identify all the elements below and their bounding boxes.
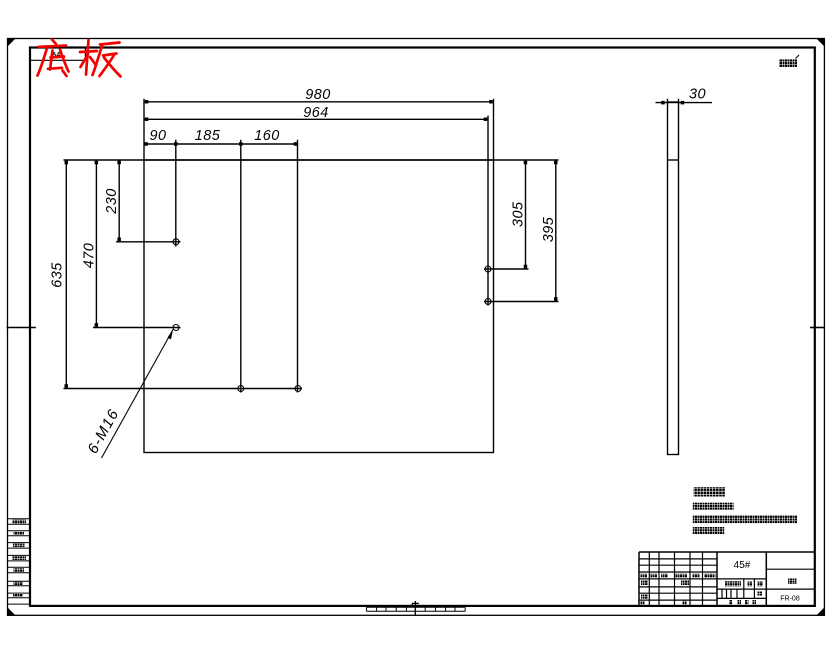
- text title block small blobs: [641, 574, 797, 605]
- wire dimension line 305: [525, 160, 527, 269]
- wire dimension line 90-185-160: [144, 143, 298, 145]
- node holes M16: [173, 239, 491, 392]
- wire dimension line 30: [656, 102, 713, 104]
- wire dimension line 980: [144, 101, 494, 103]
- wire dimension line 635: [65, 160, 67, 389]
- node side view plate: [656, 99, 713, 455]
- node corner mark bottom-left: [7, 607, 16, 616]
- text top-right tiny label: [779, 59, 798, 67]
- node bottom centering mark: [412, 601, 419, 615]
- wire extension line top long: [64, 159, 559, 161]
- wire extension line y241.8: [116, 241, 181, 243]
- svg-text:964: 964: [303, 105, 329, 121]
- svg-text:980: 980: [305, 87, 331, 103]
- svg-text:185: 185: [195, 128, 221, 144]
- wire extension line y327.5: [93, 327, 181, 329]
- svg-text:45#: 45#: [734, 560, 751, 571]
- node left binding strip text blobs: [12, 520, 26, 597]
- text tech requirements title blob: [694, 487, 726, 497]
- svg-text:230: 230: [104, 188, 120, 215]
- wire dimension line 964: [144, 118, 488, 120]
- svg-text:30: 30: [689, 86, 706, 102]
- node title block left grid: [639, 558, 717, 560]
- svg-text:470: 470: [82, 243, 98, 269]
- wire extension line y269: [484, 268, 529, 270]
- wire extension vertical hole col 2: [240, 140, 242, 393]
- svg-text:6-M16: 6-M16: [84, 406, 122, 457]
- wire dimension line 470: [95, 160, 97, 328]
- wire right centering mark: [810, 327, 824, 329]
- svg-text:90: 90: [149, 128, 166, 144]
- wire dimension line 395: [555, 160, 557, 302]
- wire left centering mark: [7, 327, 36, 329]
- node dimension terminators: [65, 100, 685, 388]
- wire dimension line 230: [118, 160, 120, 242]
- node title block right rows: [766, 568, 815, 570]
- node corner mark bottom-right: [816, 607, 825, 616]
- node bottom graduation cells: [367, 607, 466, 611]
- node corner mark top-left: [7, 38, 16, 47]
- text tech req line 3: [693, 527, 724, 534]
- node left binding strip dividers: [8, 519, 31, 604]
- svg-text:305: 305: [511, 201, 527, 227]
- node title block outline: [639, 551, 815, 553]
- node base plate outline: [144, 160, 494, 453]
- wire extension vertical x488 right holes: [487, 116, 489, 306]
- node title block middle rows: [717, 588, 815, 590]
- wire extension vertical plate-left up: [143, 99, 145, 160]
- wire extension vertical plate-right up: [493, 99, 495, 160]
- text red char DI (bottom/base): [52, 40, 56, 45]
- node corner mark top-right: [816, 38, 825, 47]
- svg-text:160: 160: [254, 128, 280, 144]
- wire leader line 6-M16: [102, 330, 174, 459]
- svg-text:FR-08: FR-08: [780, 595, 800, 602]
- wire extension vertical hole col 1: [175, 140, 177, 247]
- svg-text:395: 395: [541, 216, 557, 242]
- wire extension vertical hole col 3: [297, 140, 299, 393]
- node top-left sheet-size cell: [30, 48, 85, 61]
- wire extension line y301.5: [484, 301, 559, 303]
- svg-text:635: 635: [49, 262, 65, 288]
- text red char BAN (plate): [80, 51, 97, 52]
- text tech req line 1: [693, 503, 734, 510]
- text tech req line 2: [693, 515, 797, 523]
- wire extension line y388.5: [64, 388, 303, 390]
